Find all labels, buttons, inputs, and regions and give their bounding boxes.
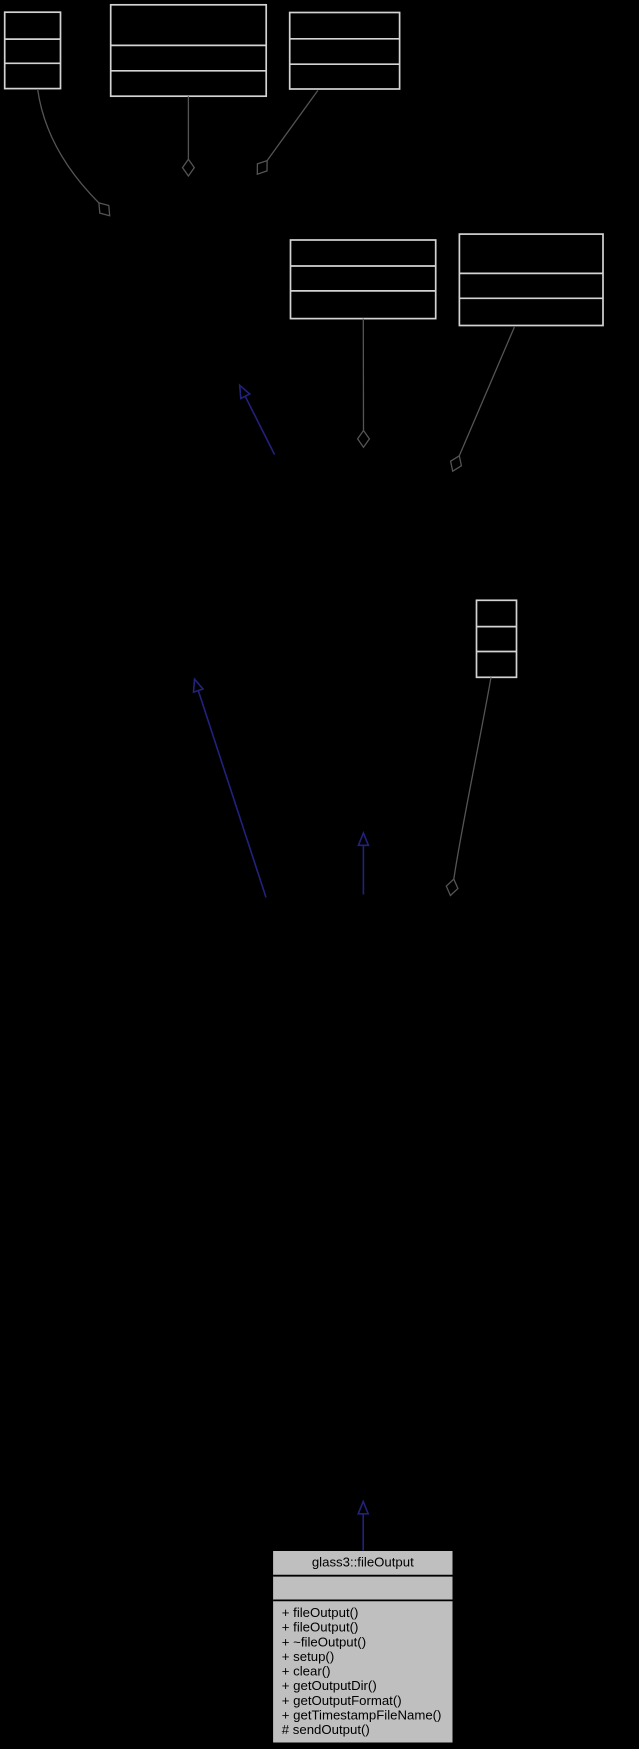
- hollow diamond of edge A: [99, 203, 110, 216]
- aggregation edge from box D (vertical): [362, 319, 364, 431]
- class box B (top-middle): [111, 5, 267, 96]
- header divider: [273, 1575, 452, 1577]
- hollow diamond of edge B: [183, 159, 195, 176]
- svg-text:+ fileOutput(): + fileOutput(): [282, 1605, 359, 1620]
- aggregation edge from box C (diagonal): [267, 90, 318, 160]
- hollow diamond of edge D: [358, 431, 370, 448]
- aggregation edge from box F (curved): [454, 677, 491, 879]
- class box glass3::fileOutput: [273, 1551, 452, 1743]
- section divider: [273, 1599, 452, 1601]
- aggregation edge from box B (vertical): [187, 96, 189, 159]
- aggregation edge from box E (diagonal): [459, 327, 514, 456]
- inheritance arrow 4 (blue, above fileOutput box): [362, 1514, 364, 1551]
- svg-text:+ setup(): + setup(): [282, 1649, 334, 1664]
- hollow diamond of edge E: [451, 456, 462, 471]
- svg-text:+ fileOutput(): + fileOutput(): [282, 1620, 359, 1635]
- class box A (top-left, text hidden): [5, 12, 61, 88]
- hollow diamond of edge F: [446, 879, 458, 895]
- class box D (middle-left): [291, 240, 436, 319]
- svg-text:+ clear(): + clear(): [282, 1664, 331, 1679]
- aggregation edge from box A (curved): [38, 89, 99, 203]
- class box F (small, right): [477, 600, 517, 677]
- svg-text:+ getOutputFormat(): + getOutputFormat(): [282, 1693, 402, 1708]
- svg-text:# sendOutput(): # sendOutput(): [282, 1722, 370, 1737]
- inheritance arrow 2 (blue, long, up-left): [198, 691, 266, 898]
- svg-text:+ getOutputDir(): + getOutputDir(): [282, 1678, 377, 1693]
- class box E (middle-right): [459, 234, 603, 325]
- svg-text:+ getTimestampFileName(): + getTimestampFileName(): [282, 1707, 442, 1722]
- class box C (top-right): [290, 13, 400, 90]
- svg-text:+ ~fileOutput(): + ~fileOutput(): [282, 1634, 366, 1649]
- inheritance arrow 3 (blue, short vertical): [362, 845, 364, 894]
- svg-text:glass3::fileOutput: glass3::fileOutput: [312, 1554, 414, 1569]
- inheritance arrow 1 (blue, up-left): [245, 396, 274, 454]
- hollow diamond of edge C: [257, 161, 267, 175]
